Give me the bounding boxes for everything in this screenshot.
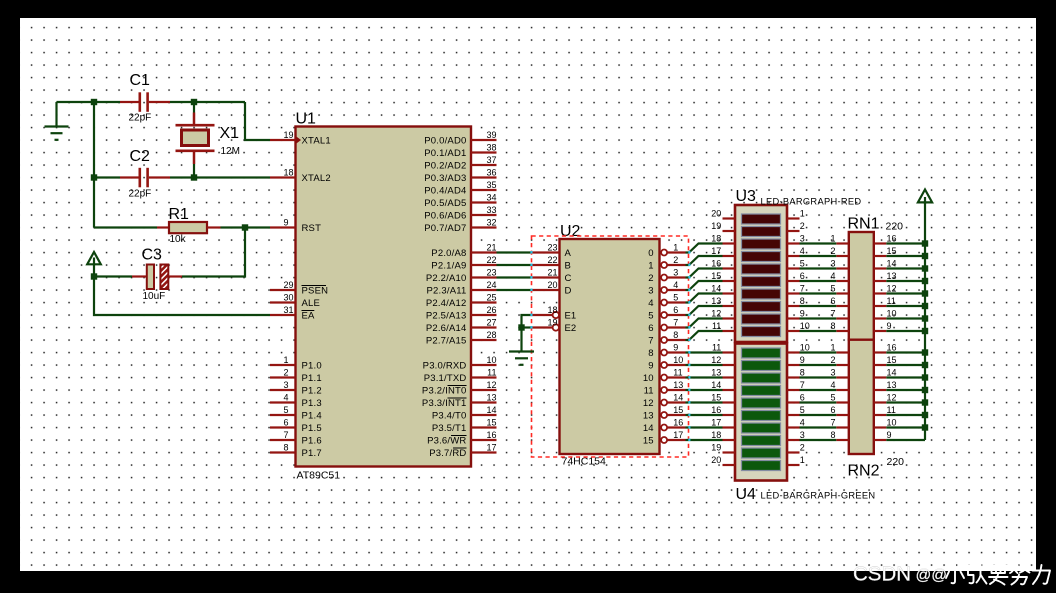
U3 LED segment 8: [742, 302, 781, 312]
wire U3 pin 8 to RN1: [800, 305, 837, 307]
svg-text:8: 8: [800, 296, 805, 306]
svg-text:3: 3: [800, 430, 805, 440]
wire RN1 to power bus: [886, 255, 925, 257]
RN1 pin 9 (right): [874, 321, 892, 331]
selection crossing tick: [530, 289, 532, 292]
node junction C3 row col5: [91, 273, 97, 279]
svg-text:34: 34: [486, 193, 496, 203]
U1 pin 25 P2.4/A12: [426, 293, 497, 309]
svg-text:@@: @@: [916, 567, 947, 584]
svg-text:18: 18: [284, 168, 294, 178]
svg-text:8: 8: [673, 330, 678, 340]
svg-text:4: 4: [830, 271, 835, 281]
wire U2 output 7 to U3: [686, 331, 723, 340]
svg-text:6: 6: [830, 405, 835, 415]
wire power rail down to EA: [94, 277, 270, 316]
svg-text:20: 20: [711, 209, 721, 219]
wire U2 output 13 to U4: [686, 414, 723, 416]
selection crossing tick: [688, 276, 690, 279]
U2 pin 22 B: [532, 255, 571, 271]
wire RN2 to power bus: [886, 401, 925, 403]
U4 LED segment 1: [742, 348, 781, 358]
svg-text:13: 13: [711, 296, 721, 306]
svg-text:19: 19: [284, 130, 294, 140]
selection crossing tick: [688, 376, 690, 379]
svg-text:5: 5: [284, 405, 289, 415]
U3 LED segment 5: [742, 264, 781, 274]
RN2 pin 4 (left): [830, 380, 848, 390]
U3 LED segment 1: [742, 214, 781, 224]
svg-text:13: 13: [673, 380, 683, 390]
svg-text:7: 7: [800, 284, 805, 294]
wire U4 to RN2 row 7: [800, 439, 837, 441]
svg-text:12: 12: [486, 380, 496, 390]
wire RN1 to power bus: [886, 317, 925, 319]
selection crossing tick: [688, 339, 690, 342]
op-amp n/a - IC U1 AT89C51 body: [296, 127, 472, 467]
U3 pin 13 (left): [711, 296, 735, 306]
wire U4 to RN2 row 3: [800, 389, 837, 391]
svg-text:11: 11: [887, 296, 896, 306]
U1 pin 26 P2.5/A13: [426, 305, 497, 321]
svg-text:P2.7/A15: P2.7/A15: [426, 335, 467, 346]
svg-text:P0.0/AD0: P0.0/AD0: [424, 135, 466, 146]
U3 pin 14 (left): [711, 284, 735, 294]
wire RN1 to power bus: [886, 242, 925, 244]
svg-text:11: 11: [887, 405, 896, 415]
U1 pin 17 P3.7/RD: [429, 443, 496, 459]
U3 pin 4 (right): [787, 246, 805, 256]
U1 pin 19 XTAL1: [270, 130, 331, 146]
svg-text:LED-BARGRAPH-GREEN: LED-BARGRAPH-GREEN: [761, 491, 876, 501]
wire U4 to RN2 row 6: [800, 426, 837, 428]
selection crossing tick: [530, 326, 532, 329]
U3 pin 20 (left): [711, 209, 735, 219]
selection crossing tick: [530, 251, 532, 254]
U1 pin 13 P3.3/INT1: [422, 393, 497, 409]
U2 pin 18 E1: [532, 305, 577, 321]
svg-text:220: 220: [886, 221, 904, 233]
node junction on bus: [922, 303, 928, 309]
U3 LED segment 6: [742, 277, 781, 287]
svg-text:9: 9: [887, 321, 892, 331]
svg-text:12: 12: [711, 309, 721, 319]
svg-text:33: 33: [486, 205, 496, 215]
RN2 pin 13 (right): [874, 380, 897, 390]
wire U4 to RN2 row 1: [800, 364, 837, 366]
svg-text:22pF: 22pF: [129, 189, 152, 200]
svg-text:9: 9: [800, 355, 805, 365]
svg-text:P0.1/AD1: P0.1/AD1: [424, 148, 466, 159]
svg-text:12: 12: [887, 393, 897, 403]
U4 pin 10 (right): [787, 343, 810, 353]
node junction RST row: [242, 224, 248, 230]
LED bargraph U4 body: [735, 344, 787, 481]
RN1 pin 10 (right): [874, 309, 897, 319]
U2 pin 19 E2: [532, 318, 577, 334]
U1 pin 9 RST: [270, 218, 321, 234]
wire U2 output 10 to U4: [686, 376, 723, 378]
svg-text:P0.2/AD2: P0.2/AD2: [424, 160, 466, 171]
wire RN2 to power bus: [886, 351, 925, 353]
watermark @@: [916, 567, 947, 584]
capacitor C1: [120, 92, 170, 112]
U2 pin 7 output 6: [648, 317, 685, 334]
wire U2 output 8 to U4: [686, 351, 723, 353]
wire RN1 to power bus: [886, 330, 925, 332]
capacitor C3 (polarized): [94, 265, 182, 290]
U4 pin 20 (left): [711, 455, 735, 465]
svg-text:D: D: [565, 285, 572, 296]
svg-text:P3.5/T1: P3.5/T1: [432, 423, 467, 434]
wire U1 P2.1 to U2: [497, 264, 532, 266]
RN1 pin 12 (right): [874, 284, 897, 294]
svg-text:P1.0: P1.0: [302, 360, 322, 371]
svg-text:13: 13: [486, 393, 496, 403]
svg-text:16: 16: [711, 405, 721, 415]
svg-text:32: 32: [486, 218, 496, 228]
U4 pin 1 (right): [787, 455, 805, 465]
U1 pin 29 PSEN: [270, 280, 328, 296]
RN1 pin 8 (left): [830, 321, 848, 331]
svg-text:38: 38: [486, 143, 496, 153]
node junction on bus: [922, 278, 928, 284]
svg-text:7: 7: [673, 317, 678, 327]
svg-text:5: 5: [648, 310, 653, 321]
U2 pin 1 output 0: [648, 242, 685, 259]
wire RN2 to power bus: [886, 426, 925, 428]
selection crossing tick: [688, 264, 690, 267]
wire RN2 to power bus: [886, 414, 925, 416]
svg-text:P2.1/A9: P2.1/A9: [431, 260, 466, 271]
U1 pin 36 P0.3/AD3: [424, 168, 496, 184]
U2 pin 16 output 14: [643, 417, 686, 434]
U1 pin 35 P0.4/AD4: [424, 180, 496, 196]
U1 pin 12 P3.2/INT0: [422, 380, 497, 396]
svg-text:2: 2: [800, 221, 805, 231]
U3 LED segment 7: [742, 289, 781, 299]
LED bargraph U3 body: [735, 205, 787, 342]
svg-text:15: 15: [673, 405, 683, 415]
wire RN2 to power bus: [886, 364, 925, 366]
U4 pin 5 (right): [787, 405, 805, 415]
svg-text:4: 4: [800, 246, 805, 256]
RN2 pin 10 (right): [874, 418, 897, 428]
wire U3 pin 9 to RN1: [800, 317, 837, 319]
svg-text:23: 23: [548, 243, 558, 253]
U1 pin 24 P2.3/A11: [427, 280, 497, 296]
svg-text:5: 5: [800, 259, 805, 269]
svg-text:P3.2/INT0: P3.2/INT0: [422, 385, 467, 396]
U3 pin 10 (right): [787, 321, 810, 331]
svg-text:E2: E2: [565, 323, 577, 334]
wire RN2 to power bus: [886, 389, 925, 391]
U4 pin 11 (left): [712, 343, 735, 353]
svg-text:12M: 12M: [221, 146, 240, 157]
wire U2 output 15 to U4: [686, 439, 723, 441]
wire U2 output 12 to U4: [686, 401, 723, 403]
ground (top-left): [45, 102, 69, 140]
selection crossing tick: [688, 389, 690, 392]
selection crossing tick: [688, 414, 690, 417]
U1 pin 16 P3.6/WR: [427, 430, 496, 446]
svg-text:12: 12: [887, 284, 897, 294]
svg-text:4: 4: [284, 393, 289, 403]
wire R1 to RST: [221, 226, 271, 228]
svg-text:P1.7: P1.7: [302, 448, 322, 459]
wire U2 output 0 to U3: [686, 244, 723, 253]
U3 LED segment 10: [742, 327, 781, 337]
U4 pin 19 (left): [711, 443, 735, 453]
wire E1 to ground: [522, 315, 532, 352]
svg-text:19: 19: [548, 318, 558, 328]
RN2 pin 15 (right): [874, 355, 897, 365]
svg-text:18: 18: [711, 430, 721, 440]
wire U1 P2.0 to U2: [497, 251, 532, 253]
RN2 pin 11 (right): [874, 405, 896, 415]
power symbol (left): [87, 252, 101, 277]
U3 LED segment 9: [742, 314, 781, 324]
svg-text:4: 4: [648, 298, 653, 309]
U3 LED segment 4: [742, 252, 781, 262]
node junction on bus: [922, 253, 928, 259]
U3 pin 5 (right): [787, 259, 805, 269]
U1 pin 32 P0.7/AD7: [424, 218, 496, 234]
wire E2 branch: [522, 326, 532, 328]
svg-text:AT89C51: AT89C51: [297, 470, 341, 482]
selection crossing tick: [530, 314, 532, 317]
wire U3 pin 10 to RN1: [800, 330, 837, 332]
watermark CSDN: [853, 563, 911, 586]
wire U4 to RN2 row 5: [800, 414, 837, 416]
RN1 pin 15 (right): [874, 246, 897, 256]
svg-text:6: 6: [800, 271, 805, 281]
resistor R1: [94, 222, 221, 233]
svg-text:C1: C1: [130, 72, 151, 89]
svg-text:27: 27: [486, 318, 496, 328]
svg-text:10: 10: [800, 343, 810, 353]
U1 pin 23 P2.2/A10: [426, 268, 497, 284]
resistor network RN2 body: [849, 340, 874, 454]
wire row6 to XTAL1: [245, 102, 270, 140]
svg-text:29: 29: [284, 280, 294, 290]
svg-text:25: 25: [486, 293, 496, 303]
svg-text:U1: U1: [296, 111, 317, 128]
U1 pin 27 P2.6/A14: [426, 318, 497, 334]
wire U2 output 1 to U3: [686, 256, 723, 265]
svg-text:11: 11: [487, 368, 496, 378]
selection crossing tick: [688, 351, 690, 354]
svg-text:8: 8: [284, 443, 289, 453]
RN1 pin 5 (left): [830, 284, 848, 294]
svg-text:RN1: RN1: [848, 216, 880, 233]
U2 pin 21 C: [532, 268, 572, 284]
node junction on bus: [922, 315, 928, 321]
svg-text:14: 14: [711, 380, 721, 390]
U1 pin 18 XTAL2: [270, 168, 331, 184]
selection crossing tick: [688, 401, 690, 404]
U4 pin 7 (right): [787, 380, 805, 390]
svg-text:20: 20: [548, 280, 558, 290]
svg-text:21: 21: [548, 268, 558, 278]
U2 pin 15 output 13: [643, 405, 686, 422]
wire U4 to RN2 row 2: [800, 376, 837, 378]
svg-text:A: A: [565, 248, 572, 259]
svg-text:P3.0/RXD: P3.0/RXD: [423, 360, 467, 371]
svg-text:P1.6: P1.6: [302, 435, 322, 446]
U1 pin 7 P1.6: [270, 430, 322, 446]
wire U4 to RN2 row 4: [800, 401, 837, 403]
U4 pin 18 (left): [711, 430, 735, 440]
node junction X1 top: [191, 99, 197, 105]
svg-text:1: 1: [284, 355, 289, 365]
U2 pin 5 output 4: [648, 292, 685, 309]
U3 pin 6 (right): [787, 271, 805, 281]
U3 pin 19 (left): [711, 221, 735, 231]
wire power bus vertical: [924, 204, 926, 441]
selection crossing tick: [688, 301, 690, 304]
svg-text:9: 9: [887, 430, 892, 440]
svg-text:14: 14: [887, 259, 897, 269]
U2 pin 3 output 2: [648, 267, 685, 284]
svg-text:19: 19: [711, 221, 721, 231]
svg-text:PSEN: PSEN: [302, 285, 329, 296]
svg-text:5: 5: [830, 393, 835, 403]
svg-text:P0.6/AD6: P0.6/AD6: [424, 210, 466, 221]
RN2 pin 9 (right): [874, 430, 892, 440]
svg-text:14: 14: [887, 368, 897, 378]
wire RN1 to power bus: [886, 280, 925, 282]
svg-text:C3: C3: [142, 247, 163, 264]
svg-text:9: 9: [673, 342, 678, 352]
wire U2 output 3 to U3: [686, 281, 723, 290]
svg-text:16: 16: [711, 259, 721, 269]
svg-text:14: 14: [486, 405, 496, 415]
svg-text:EA: EA: [302, 310, 316, 321]
selection crossing tick: [688, 426, 690, 429]
svg-text:8: 8: [830, 321, 835, 331]
svg-text:17: 17: [486, 443, 496, 453]
svg-text:P3.6/WR: P3.6/WR: [427, 435, 466, 446]
svg-text:12: 12: [711, 355, 721, 365]
svg-text:15: 15: [711, 393, 721, 403]
svg-text:37: 37: [486, 155, 496, 165]
svg-text:P0.7/AD7: P0.7/AD7: [424, 223, 466, 234]
svg-text:RST: RST: [302, 223, 322, 234]
U2 pin 6 output 5: [648, 305, 685, 322]
svg-text:P2.2/A10: P2.2/A10: [426, 273, 467, 284]
wire RN2 to power bus: [886, 376, 925, 378]
svg-text:18: 18: [711, 234, 721, 244]
svg-text:23: 23: [486, 268, 496, 278]
svg-text:B: B: [565, 260, 571, 271]
svg-text:15: 15: [887, 246, 897, 256]
U4 pin 15 (left): [711, 393, 735, 403]
svg-text:3: 3: [830, 368, 835, 378]
selection crossing tick: [688, 251, 690, 254]
U4 LED segment 9: [742, 448, 781, 458]
U3 pin 9 (right): [787, 309, 805, 319]
U4 LED segment 2: [742, 361, 781, 371]
RN1 pin 11 (right): [874, 296, 896, 306]
svg-text:4: 4: [830, 380, 835, 390]
U4 pin 16 (left): [711, 405, 735, 415]
RN2 pin 16 (right): [874, 343, 897, 353]
wire RN1 to power bus: [886, 305, 925, 307]
selection crossing tick: [530, 276, 532, 279]
node junction on bus: [922, 412, 928, 418]
svg-text:9: 9: [800, 309, 805, 319]
node junction on bus: [922, 265, 928, 271]
svg-text:5: 5: [800, 405, 805, 415]
U4 pin 4 (right): [787, 418, 805, 428]
wire U2 output 2 to U3: [686, 269, 723, 278]
svg-text:8: 8: [648, 348, 653, 359]
node junction X1 bottom: [191, 174, 197, 180]
svg-text:7: 7: [830, 309, 835, 319]
node junction col5 row6: [91, 99, 97, 105]
svg-text:1: 1: [800, 455, 805, 465]
svg-text:18: 18: [548, 305, 558, 315]
svg-text:C: C: [565, 273, 572, 284]
wire U1 P2.3 to U2: [497, 289, 532, 291]
wire col5 vertical: [93, 102, 95, 228]
wire U1 P2.2 to U2: [497, 276, 532, 278]
wire U2 output 9 to U4: [686, 364, 723, 366]
wire U3 pin 5 to RN1: [800, 267, 837, 269]
U3 pin 15 (left): [711, 271, 735, 281]
svg-text:10: 10: [673, 355, 683, 365]
selection crossing tick: [530, 264, 532, 267]
U3 LED segment 2: [742, 227, 781, 237]
svg-text:7: 7: [284, 430, 289, 440]
svg-text:17: 17: [711, 418, 721, 428]
svg-text:U3: U3: [736, 188, 757, 205]
RN1 pin 4 (left): [830, 271, 848, 281]
svg-text:24: 24: [486, 280, 496, 290]
node junction on bus: [922, 424, 928, 430]
U3 LED segment 3: [742, 239, 781, 249]
svg-text:5: 5: [673, 292, 678, 302]
svg-text:P1.4: P1.4: [302, 410, 322, 421]
svg-text:P2.4/A12: P2.4/A12: [426, 298, 467, 309]
U2 pin 9 output 8: [648, 342, 685, 359]
watermark fragment: [823, 568, 829, 571]
svg-text:10: 10: [887, 418, 897, 428]
selection crossing tick: [688, 439, 690, 442]
U1 pin 22 P2.1/A9: [431, 255, 496, 271]
U2 pin 11 output 10: [643, 367, 686, 384]
RN1 pin 7 (left): [830, 309, 848, 319]
node junction on bus: [922, 240, 928, 246]
U1 pin 38 P0.1/AD1: [424, 143, 496, 159]
selection crossing tick: [688, 326, 690, 329]
U4 LED segment 7: [742, 423, 781, 433]
svg-text:15: 15: [486, 418, 496, 428]
svg-text:20: 20: [711, 455, 721, 465]
svg-text:P2.6/A14: P2.6/A14: [426, 323, 467, 334]
U4 pin 17 (left): [711, 418, 735, 428]
RN1 pin 3 (left): [830, 259, 848, 269]
svg-text:11: 11: [673, 367, 682, 377]
svg-text:3: 3: [673, 267, 678, 277]
svg-text:12: 12: [643, 398, 654, 409]
svg-text:3: 3: [284, 380, 289, 390]
node junction on bus: [922, 349, 928, 355]
U2 pin 10 output 9: [648, 355, 685, 372]
U1 pin 37 P0.2/AD2: [424, 155, 496, 171]
U1 pin 6 P1.5: [270, 418, 322, 434]
